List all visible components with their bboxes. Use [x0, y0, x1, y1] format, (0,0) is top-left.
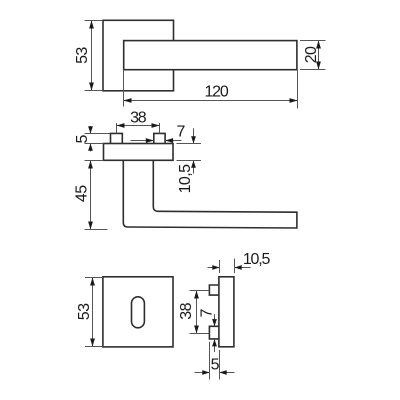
dim 20 arrows — [316, 41, 321, 49]
rosette plate (front view) — [104, 144, 174, 161]
rosette square (top view) — [103, 20, 174, 91]
svg-text:10,5: 10,5 — [177, 164, 194, 193]
svg-text:45: 45 — [74, 185, 91, 202]
dim 38 line (side view) — [196, 291, 198, 334]
dim 38 leader lines (front view) — [117, 123, 160, 133]
svg-text:38: 38 — [130, 110, 147, 127]
dim 45 line — [90, 161, 92, 230]
keyhole slot — [132, 297, 145, 328]
dim 120 line — [124, 100, 298, 102]
rosette side plate — [219, 277, 234, 347]
dim 38 line (front view) — [117, 125, 160, 127]
side boss top — [209, 285, 219, 295]
dim 53 left extension lines (top view) — [85, 21, 104, 91]
dim 53 extension lines (key rosette) — [85, 278, 103, 347]
screw boss right — [154, 133, 165, 143]
svg-text:38: 38 — [178, 302, 195, 319]
dim 38 arrows (front view) — [117, 123, 125, 128]
side boss bottom — [209, 326, 219, 339]
dim 120 extension lines — [124, 70, 298, 109]
dim 10,5 arrows (front view) — [193, 128, 195, 143]
svg-text:120: 120 — [204, 84, 228, 101]
dim 53 arrows (top view) — [89, 21, 94, 29]
dim 20 extension lines (right) — [300, 41, 326, 70]
dim 5 extension lines (side view bottom) — [210, 342, 220, 380]
svg-text:20: 20 — [303, 46, 320, 63]
dim 7 lines (front view) — [131, 140, 182, 142]
key rosette square — [103, 277, 173, 347]
dim 53 arrows (key rosette) — [90, 278, 95, 286]
dim 10,5 arrows (side view) — [208, 267, 220, 269]
dim 7 arrows (front view) — [146, 138, 154, 143]
dim 10,5 extension lines (side view) — [220, 259, 235, 274]
dim 7 arrows (side view) — [214, 314, 216, 326]
svg-text:5: 5 — [211, 357, 220, 374]
screw boss left — [111, 133, 123, 143]
svg-text:7: 7 — [176, 123, 185, 140]
dim 10,5 extension lines (front view) — [177, 144, 202, 161]
svg-text:10,5: 10,5 — [243, 251, 271, 268]
svg-text:5: 5 — [74, 134, 91, 143]
dim 38 arrows (side view) — [194, 291, 199, 299]
svg-text:53: 53 — [74, 47, 91, 64]
dim 5 extension line (front view left) — [85, 134, 111, 144]
dim 45 extension lines (front view) — [85, 161, 108, 230]
dim 120 arrows — [124, 98, 132, 103]
dim 5 arrows (side view bottom) — [195, 372, 210, 374]
dim 53 line (key rosette) — [92, 278, 94, 347]
dim 20 line — [318, 41, 320, 70]
dim 38 extension lines (side view) — [190, 291, 210, 334]
dim 45 arrows — [88, 161, 93, 169]
dim 53 line (top view) — [91, 21, 93, 91]
handle bar (top view) — [124, 41, 297, 70]
handle lever (front view) — [123, 160, 297, 228]
dim 5 arrows (front view left) — [90, 126, 92, 134]
svg-text:53: 53 — [76, 303, 93, 320]
svg-text:7: 7 — [198, 308, 215, 317]
